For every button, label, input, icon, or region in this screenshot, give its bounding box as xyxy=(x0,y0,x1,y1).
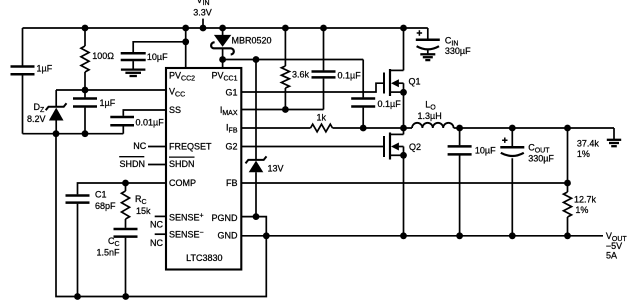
svg-text:SHDN: SHDN xyxy=(120,159,146,169)
svg-text:330µF: 330µF xyxy=(528,154,554,164)
svg-text:G1: G1 xyxy=(225,87,237,97)
svg-text:PGND: PGND xyxy=(211,213,238,223)
svg-text:1%: 1% xyxy=(575,205,588,215)
svg-text:1.5nF: 1.5nF xyxy=(96,248,120,258)
svg-text:0.01µF: 0.01µF xyxy=(136,118,165,128)
svg-text:8.2V: 8.2V xyxy=(27,114,46,124)
svg-text:10µF: 10µF xyxy=(147,52,168,62)
svg-text:LTC3830: LTC3830 xyxy=(186,253,222,263)
svg-text:G2: G2 xyxy=(225,142,237,152)
svg-text:SHDN: SHDN xyxy=(169,159,195,169)
svg-text:1µF: 1µF xyxy=(100,98,116,108)
svg-text:NC: NC xyxy=(150,219,163,229)
svg-text:10µF: 10µF xyxy=(475,146,496,156)
svg-text:COMP: COMP xyxy=(169,178,196,188)
svg-text:3.6k: 3.6k xyxy=(292,70,310,80)
svg-text:37.4k: 37.4k xyxy=(577,139,600,149)
svg-text:1%: 1% xyxy=(577,149,590,159)
svg-text:FB: FB xyxy=(226,178,238,188)
svg-text:12.7k: 12.7k xyxy=(574,195,597,205)
svg-text:SENSE−: SENSE− xyxy=(169,230,204,240)
svg-text:1µF: 1µF xyxy=(37,64,53,74)
svg-text:68pF: 68pF xyxy=(95,201,116,211)
svg-text:1k: 1k xyxy=(317,113,327,123)
svg-text:NC: NC xyxy=(133,141,146,151)
svg-text:3.3V: 3.3V xyxy=(193,7,212,17)
svg-text:0.1µF: 0.1µF xyxy=(338,71,362,81)
svg-text:1.3µH: 1.3µH xyxy=(418,111,442,121)
svg-text:100Ω: 100Ω xyxy=(92,51,114,61)
svg-text:NC: NC xyxy=(150,238,163,248)
svg-text:−5V: −5V xyxy=(606,241,622,251)
svg-text:MBR0520: MBR0520 xyxy=(232,36,272,46)
svg-text:13V: 13V xyxy=(268,163,284,173)
svg-text:GND: GND xyxy=(218,231,239,241)
svg-text:Q1: Q1 xyxy=(409,77,421,87)
svg-text:C1: C1 xyxy=(95,190,107,200)
svg-text:15k: 15k xyxy=(136,206,151,216)
svg-text:5A: 5A xyxy=(606,251,617,261)
svg-text:SENSE+: SENSE+ xyxy=(169,212,204,222)
svg-text:Q2: Q2 xyxy=(409,142,421,152)
svg-text:0.1µF: 0.1µF xyxy=(378,99,402,109)
svg-text:FREQSET: FREQSET xyxy=(169,142,212,152)
svg-text:330µF: 330µF xyxy=(445,46,471,56)
svg-text:SS: SS xyxy=(169,105,181,115)
